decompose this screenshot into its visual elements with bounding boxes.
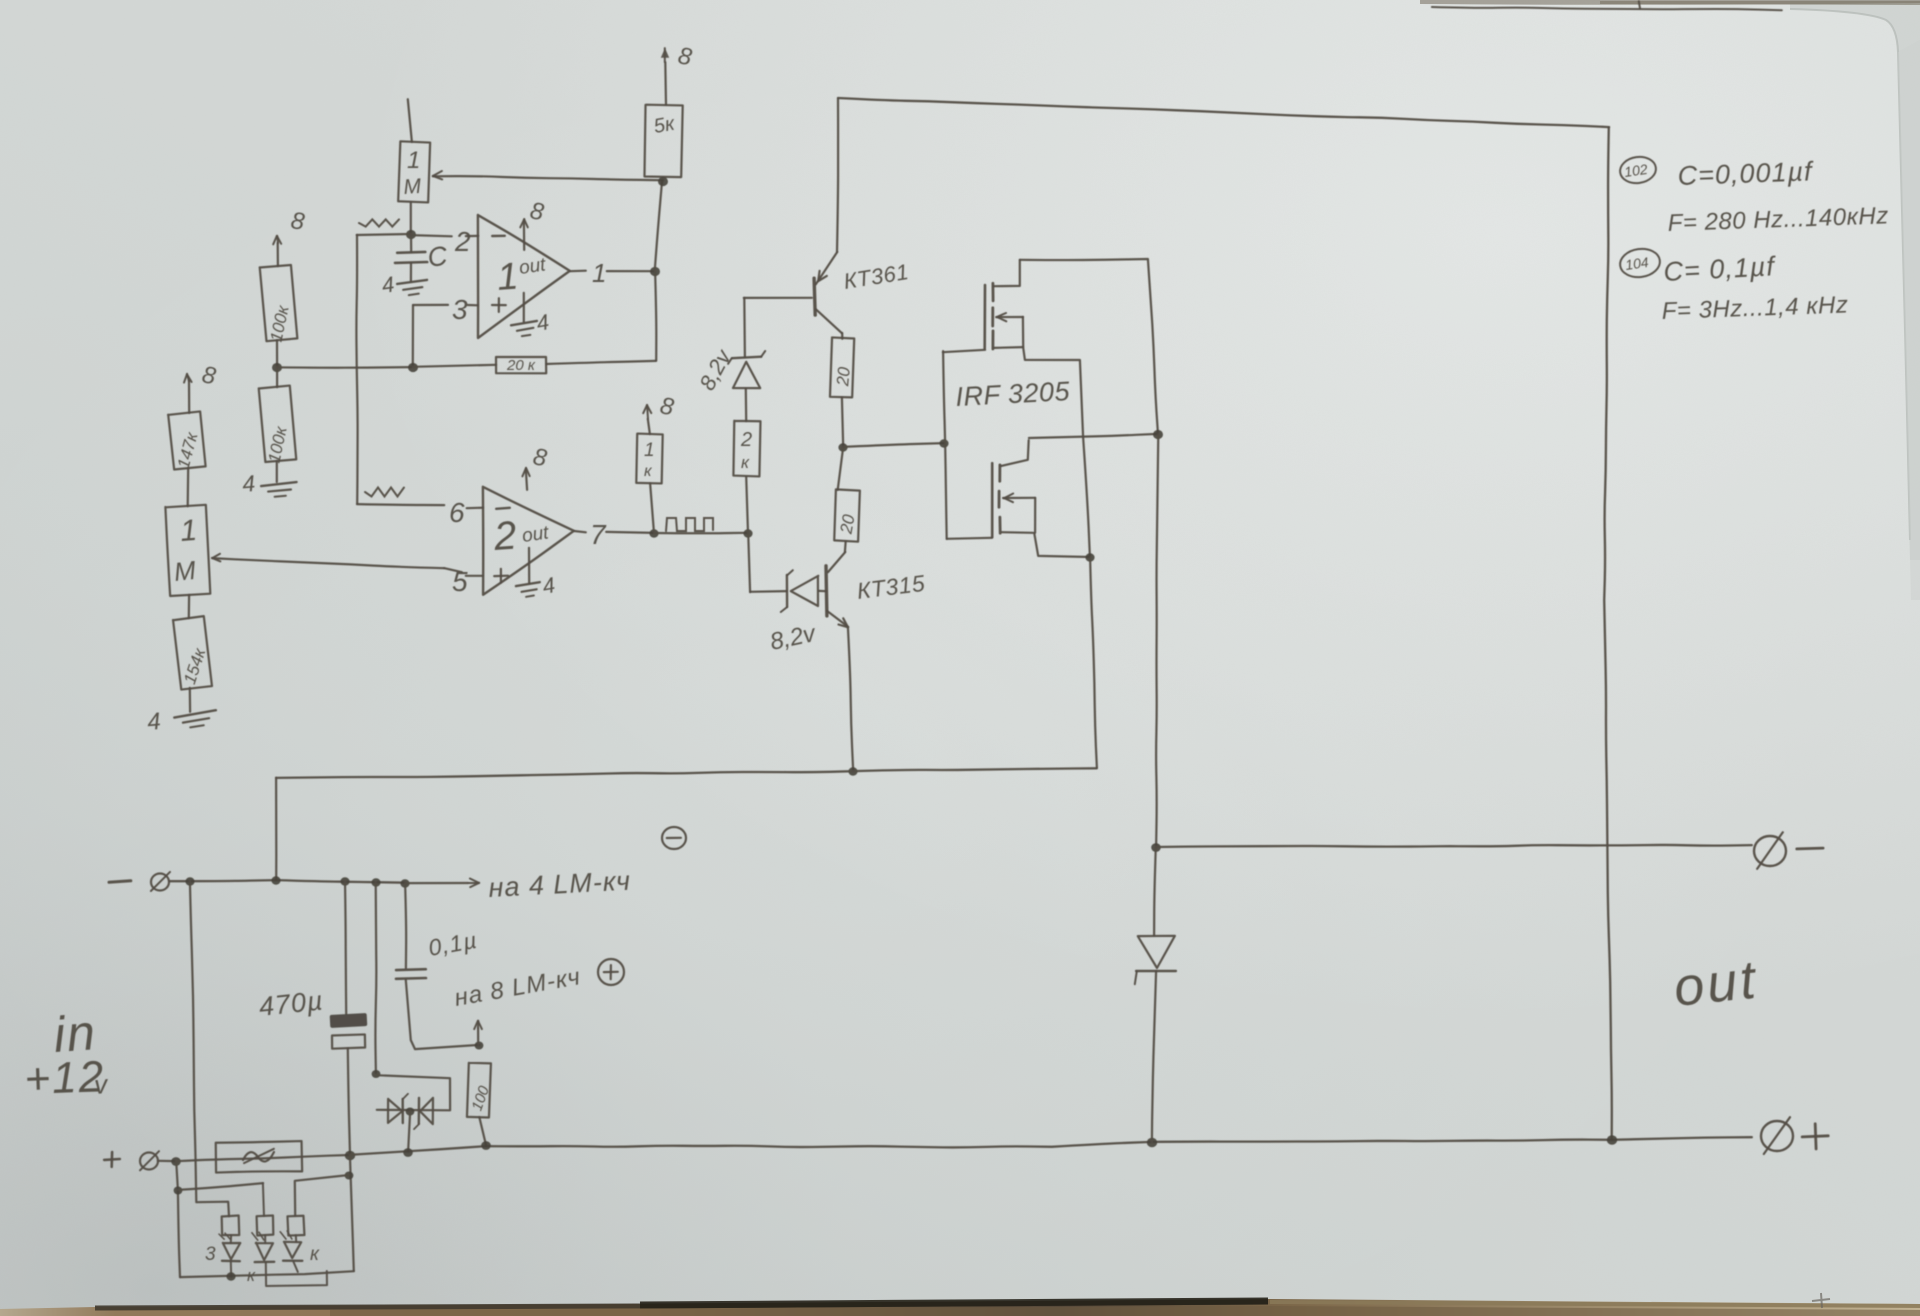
wire node to cap bbox=[410, 234, 412, 252]
resistor R11 20 bbox=[834, 489, 860, 541]
wire bbox=[276, 461, 278, 482]
node output1 bbox=[650, 267, 660, 276]
wire big vertical from fuse node bbox=[350, 1155, 354, 1271]
resistor R6 154k bbox=[173, 616, 213, 690]
wire rail left end down bbox=[275, 778, 277, 880]
circled plus bbox=[598, 959, 624, 985]
node KT315 emitter rail bbox=[848, 767, 857, 775]
resistor R1 5k bbox=[644, 105, 682, 177]
wire 470u to plus rail bbox=[348, 1048, 350, 1155]
mosfet M1 gate bar bbox=[983, 285, 986, 348]
wire pin5 from 1M pot bbox=[444, 568, 462, 572]
capacitor C2 470u plus plate bbox=[330, 1013, 368, 1028]
mosfet M2 drain stub bbox=[1001, 440, 1029, 466]
pencil line top edge bbox=[1432, 7, 1782, 10]
wire trimmer arrow from 5k node bbox=[433, 176, 663, 180]
wire pin3 bbox=[413, 304, 448, 306]
ground (100k chain) bbox=[261, 482, 298, 498]
svg-text:к: к bbox=[310, 1244, 320, 1265]
svg-text:out: out bbox=[521, 522, 551, 547]
wire plus rail bbox=[350, 1137, 1752, 1155]
transistor Q1 KT361 bbox=[814, 278, 815, 315]
wire rail to pin6 bbox=[357, 504, 444, 505]
svg-text:1: 1 bbox=[496, 256, 520, 299]
wire M1 source down bbox=[1023, 347, 1090, 557]
svg-text:C=0,001µf: C=0,001µf bbox=[1677, 156, 1814, 191]
terminal plus bbox=[140, 1153, 158, 1170]
resistor R3 100k bbox=[260, 265, 298, 342]
zener VD1 8.2v bbox=[733, 362, 760, 388]
svg-text:2: 2 bbox=[492, 514, 518, 560]
wire pin2 bbox=[411, 235, 452, 236]
svg-text:4: 4 bbox=[241, 470, 256, 497]
svg-text:IRF 3205: IRF 3205 bbox=[955, 376, 1071, 412]
svg-text:к: к bbox=[247, 1266, 256, 1285]
wire bbox=[842, 397, 843, 447]
squiggle mark pin6 bbox=[365, 488, 404, 497]
supply arrow 8 (100k chain) bbox=[277, 243, 279, 266]
resistor R8 1k bbox=[636, 434, 662, 484]
LED2 red bbox=[264, 1235, 266, 1243]
svg-text:6: 6 bbox=[449, 497, 465, 528]
svg-text:M: M bbox=[172, 555, 197, 587]
svg-text:20: 20 bbox=[836, 513, 858, 536]
wire to LED3 top bbox=[295, 1175, 349, 1216]
supply arrow 8 (5k) bbox=[664, 62, 667, 105]
ground (cap C) bbox=[397, 280, 429, 297]
resistor R12 100 bbox=[467, 1063, 491, 1118]
wire stub above 1M bbox=[408, 99, 412, 142]
wire zener to KT361 base bbox=[743, 298, 746, 357]
diode D1 output bbox=[1154, 847, 1156, 936]
output pin7 bbox=[574, 531, 586, 532]
svg-text:7: 7 bbox=[590, 519, 607, 550]
terminal minus bbox=[151, 874, 169, 891]
wire cap to ground bbox=[410, 263, 412, 281]
svg-text:104: 104 bbox=[1624, 254, 1650, 273]
mosfet M2 source arrow bbox=[1003, 497, 1035, 499]
node drain rail bbox=[1153, 430, 1163, 439]
output pin1 bbox=[570, 270, 586, 273]
wire left rail down bbox=[356, 235, 357, 504]
wire gate drive to bus bbox=[843, 443, 944, 447]
wire bbox=[189, 688, 192, 712]
wire emitter up to top rail bbox=[837, 98, 838, 252]
wire TVS to plus rail bbox=[408, 1111, 410, 1152]
capacitor C bbox=[397, 251, 425, 255]
resistor R13 bbox=[221, 1216, 239, 1236]
arrow to 8 LM bbox=[477, 1028, 479, 1045]
wire minus rail to 470u bbox=[345, 881, 346, 1014]
square wave symbol bbox=[666, 518, 713, 531]
zener pair bbox=[388, 1099, 402, 1123]
label minus bbox=[109, 881, 131, 883]
ground pin4 op1 bbox=[523, 293, 525, 322]
wire emitter down bbox=[848, 627, 853, 771]
node junction 100k bbox=[272, 363, 282, 372]
svg-text:5: 5 bbox=[452, 566, 468, 597]
op-amp U1A triangle bbox=[478, 215, 570, 338]
resistor R15 bbox=[287, 1216, 304, 1236]
node supply arrow 8 (147k chain) bbox=[188, 381, 190, 413]
resistor R4 100k bbox=[276, 367, 278, 387]
wire bbox=[838, 447, 844, 490]
capacitor C3 0.1u bbox=[396, 968, 426, 971]
mosfet M1 drain stub bbox=[994, 260, 1020, 286]
plus sign pin5 bbox=[494, 575, 508, 578]
resistor R7 20k bbox=[496, 357, 546, 373]
wire 100 to plus rail bbox=[479, 1117, 486, 1145]
node pin7 bbox=[649, 529, 658, 537]
wire 20b to KT315 collector bbox=[844, 541, 847, 552]
resistor R14 bbox=[263, 1183, 264, 1216]
potentiometer RP1 1M bbox=[165, 505, 210, 596]
node gate bus bbox=[939, 439, 948, 447]
svg-text:3: 3 bbox=[205, 1244, 216, 1265]
wire pin3 down to 20k node bbox=[412, 305, 414, 367]
mosfet M1 source arrow bbox=[996, 316, 1023, 318]
wire 0.1u down and right bbox=[406, 980, 479, 1049]
note circle 104 bbox=[1618, 246, 1662, 279]
plus sign pin3 bbox=[492, 304, 506, 306]
wire drain down bbox=[1156, 434, 1158, 847]
circled minus bbox=[662, 827, 686, 849]
trimmer R2 1M bbox=[398, 141, 430, 202]
wire drain rail bbox=[1029, 434, 1158, 438]
capacitor C2 470u minus plate bbox=[332, 1034, 366, 1048]
wire plus terminal bbox=[158, 1160, 176, 1162]
bottom bus bbox=[180, 1271, 354, 1277]
wire bus to lower gate bbox=[947, 538, 992, 539]
wire collector to 20a bbox=[841, 333, 843, 339]
fuse F1 bbox=[216, 1141, 303, 1173]
wire to LED2 top bbox=[178, 1183, 263, 1190]
node zener/2k junction bbox=[743, 529, 752, 537]
wire bbox=[188, 595, 191, 618]
mosfet M2 channel bbox=[998, 465, 1001, 481]
svg-text:3: 3 bbox=[452, 294, 468, 325]
svg-text:4: 4 bbox=[146, 708, 162, 736]
svg-text:1: 1 bbox=[179, 514, 198, 548]
wire LED3 bottom bbox=[293, 1261, 298, 1272]
wire 1M to node bbox=[410, 202, 412, 234]
svg-text:M: M bbox=[403, 175, 423, 199]
transistor Q2 KT315 bbox=[824, 566, 828, 616]
wire bbox=[187, 468, 190, 507]
svg-text:2: 2 bbox=[454, 226, 471, 257]
note circle 102 bbox=[1618, 155, 1657, 186]
resistor R9 2k bbox=[733, 421, 760, 477]
terminal F+ bbox=[1761, 1121, 1793, 1151]
TVS box bbox=[376, 1075, 450, 1110]
mosfet M2 gate bar bbox=[991, 463, 994, 537]
wire right rail down bbox=[1604, 127, 1612, 1140]
power arrow 8 op2 bbox=[526, 469, 527, 490]
wire minus rail to 0.1u bbox=[405, 883, 406, 968]
wire bbox=[546, 361, 656, 364]
wire 2k to zener VD1 bbox=[745, 389, 748, 421]
wire minus rail down to LED1 bbox=[190, 881, 229, 1217]
ground pin4 op2 bbox=[528, 548, 530, 583]
node fuse right bbox=[345, 1151, 355, 1161]
mosfet M2 source stub bbox=[1002, 531, 1033, 534]
svg-text:102: 102 bbox=[1623, 161, 1649, 180]
node F- bbox=[1151, 843, 1161, 852]
svg-text:out: out bbox=[518, 254, 548, 279]
wire node to left rail bbox=[357, 234, 411, 235]
wire bbox=[276, 340, 278, 367]
wire minus rail to TVS bbox=[374, 882, 377, 1073]
wire bbox=[413, 365, 496, 367]
mosfet M1 source stub bbox=[994, 346, 1023, 349]
svg-text:out: out bbox=[1671, 949, 1761, 1017]
svg-text:C= 0,1µf: C= 0,1µf bbox=[1663, 251, 1777, 287]
svg-text:2: 2 bbox=[740, 429, 752, 451]
resistor R10 20 bbox=[830, 337, 854, 397]
svg-text:20: 20 bbox=[833, 366, 854, 388]
resistor R5 147k bbox=[168, 411, 206, 469]
wire node up to 2k bbox=[746, 477, 748, 533]
LED3 red bbox=[295, 1235, 297, 1242]
wire node7 to zener node bbox=[654, 532, 748, 535]
LED1 green bbox=[230, 1235, 232, 1243]
minus sign pin6 bbox=[496, 508, 510, 509]
wire 1k to node7 bbox=[650, 483, 654, 533]
wire zener2 to node bbox=[750, 590, 787, 593]
wire gate bus vertical bbox=[943, 351, 947, 539]
node 20k left bbox=[408, 363, 418, 372]
node pin2 junction bbox=[406, 230, 416, 239]
wire to 20k node bbox=[277, 366, 411, 369]
wire bus to upper gate bbox=[943, 350, 985, 352]
wire sources down bbox=[1090, 557, 1097, 768]
wire M2 source down to node bbox=[1034, 533, 1090, 557]
svg-text:1: 1 bbox=[407, 147, 420, 174]
wire F- rail bbox=[1156, 845, 1752, 847]
wire wiper from op-amp2 pin5 bbox=[212, 558, 444, 568]
svg-text:1: 1 bbox=[592, 258, 606, 288]
wire diode to plus rail bbox=[1152, 971, 1156, 1142]
wire plus down left side bbox=[176, 1161, 180, 1277]
node below 5k bbox=[658, 177, 668, 186]
wire LED2 bottom detour bbox=[266, 1262, 327, 1286]
svg-text:20 к: 20 к bbox=[506, 357, 536, 374]
supply arrow 8 (1k) bbox=[648, 419, 650, 434]
zener VD2 8.2v (base) bbox=[819, 590, 826, 592]
wire arrow to 4 LM bbox=[405, 882, 468, 884]
ground (154k chain) bbox=[174, 710, 218, 730]
squiggle mark top bbox=[359, 219, 399, 226]
minus sign pin2 bbox=[492, 235, 505, 238]
mosfet M1 channel bbox=[992, 283, 995, 301]
node sources join bbox=[1085, 553, 1094, 561]
wire top rail bbox=[838, 98, 1609, 127]
wire return rail bbox=[276, 768, 1097, 778]
node gate drive bbox=[838, 443, 847, 451]
terminal F- bbox=[1754, 836, 1786, 866]
wire vertical 5k node to 20k bbox=[655, 182, 662, 271]
label plus bbox=[104, 1158, 120, 1162]
wire minus rail bbox=[169, 880, 405, 883]
power arrow 8 op1 bbox=[523, 220, 525, 250]
op-amp U1B triangle bbox=[483, 487, 574, 595]
svg-text:к: к bbox=[741, 453, 750, 472]
svg-text:1: 1 bbox=[644, 440, 655, 461]
wire M1 drain to top rail bbox=[1020, 259, 1158, 434]
